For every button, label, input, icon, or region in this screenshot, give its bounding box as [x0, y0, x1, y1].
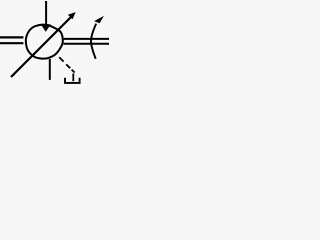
tank symbol	[65, 78, 80, 83]
drain line dash 3	[72, 70, 75, 73]
pump/motor circle	[26, 25, 63, 59]
right shaft line upper	[64, 38, 109, 40]
drain line vertical segment into tank	[72, 73, 74, 81]
variable displacement diagonal arrow shaft	[11, 17, 72, 78]
top port line	[45, 1, 47, 26]
right shaft line lower	[64, 43, 109, 45]
left shaft line upper	[0, 36, 23, 38]
rotation direction curved arrow shaft	[91, 24, 96, 59]
flow direction arrowhead into circle	[41, 24, 51, 32]
left shaft line lower	[0, 42, 23, 44]
variable displacement arrowhead	[68, 12, 76, 19]
drain line dash 2	[66, 64, 70, 68]
bottom port line	[49, 59, 51, 80]
rotation direction arrowhead	[94, 16, 104, 23]
drain line dash 1	[59, 57, 63, 61]
